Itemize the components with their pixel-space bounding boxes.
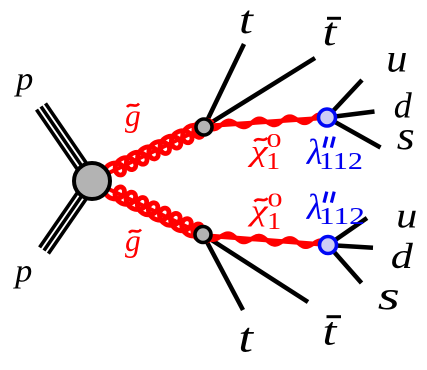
svg-text:p: p [14, 62, 33, 98]
svg-text:112: 112 [319, 204, 365, 230]
gluino propagator g~ (bottom): gluon curl [104, 187, 212, 242]
proton beam (bottom-left) triple line [40, 178, 97, 254]
wire: top u quark line [327, 80, 362, 118]
label tbar (top) [323, 9, 342, 54]
production vertex blob (pp collision) [74, 163, 110, 199]
wire: bottom u quark line [328, 218, 367, 245]
svg-text:t: t [323, 9, 338, 54]
wire: top t quark line [204, 44, 244, 127]
gluino propagator g~ (top): fermion line [98, 127, 204, 178]
wire: top tbar quark line [204, 58, 315, 127]
label neutralino chi10 (bottom) [247, 190, 282, 236]
svg-text:u: u [396, 195, 417, 235]
svg-text:d: d [391, 236, 414, 276]
neutralino propagator chi10 (top): straight line [206, 118, 320, 126]
svg-text:g: g [125, 223, 141, 258]
wire: top d quark line [327, 112, 375, 118]
gluino propagator g~ (bottom): fermion line [98, 184, 203, 235]
label neutralino chi10 (top) [247, 130, 281, 175]
neutralino propagator chi10 (top): wavy line [206, 115, 320, 130]
neutralino propagator chi10 (bottom): wavy line [205, 234, 321, 247]
RPV vertex lambda112 (top) [319, 109, 336, 126]
svg-text:s: s [378, 273, 400, 318]
svg-text:112: 112 [319, 149, 363, 175]
label gluino gtilde (bottom) [125, 223, 141, 258]
svg-text:p: p [13, 254, 32, 290]
RPV vertex lambda112 (bottom) [320, 237, 337, 254]
label lambda112 coupling (top) [306, 132, 363, 175]
neutralino propagator chi10 (bottom): straight line [205, 236, 321, 245]
svg-text:u: u [386, 36, 407, 81]
wire: top s quark line [327, 118, 381, 148]
proton beam (top-left) triple line [37, 103, 97, 184]
svg-text:t: t [238, 316, 254, 362]
wire: bottom d quark line [328, 245, 373, 248]
gluino propagator g~ (top): gluon curl [104, 120, 213, 175]
label tbar (bottom) [323, 309, 342, 354]
gluino decay vertex blob (top) [196, 119, 212, 135]
svg-text:1: 1 [266, 149, 280, 175]
label gluino gtilde (top) [125, 98, 141, 133]
svg-text:s: s [397, 113, 415, 158]
wire: bottom s quark line [328, 245, 362, 283]
svg-text:t: t [239, 0, 254, 42]
wire: bottom t quark line [203, 235, 243, 311]
gluino decay vertex blob (bottom) [195, 227, 211, 243]
label lambda112 coupling (bottom) [306, 187, 365, 230]
svg-text:1: 1 [267, 209, 281, 235]
wire: bottom tbar quark line [203, 235, 308, 303]
